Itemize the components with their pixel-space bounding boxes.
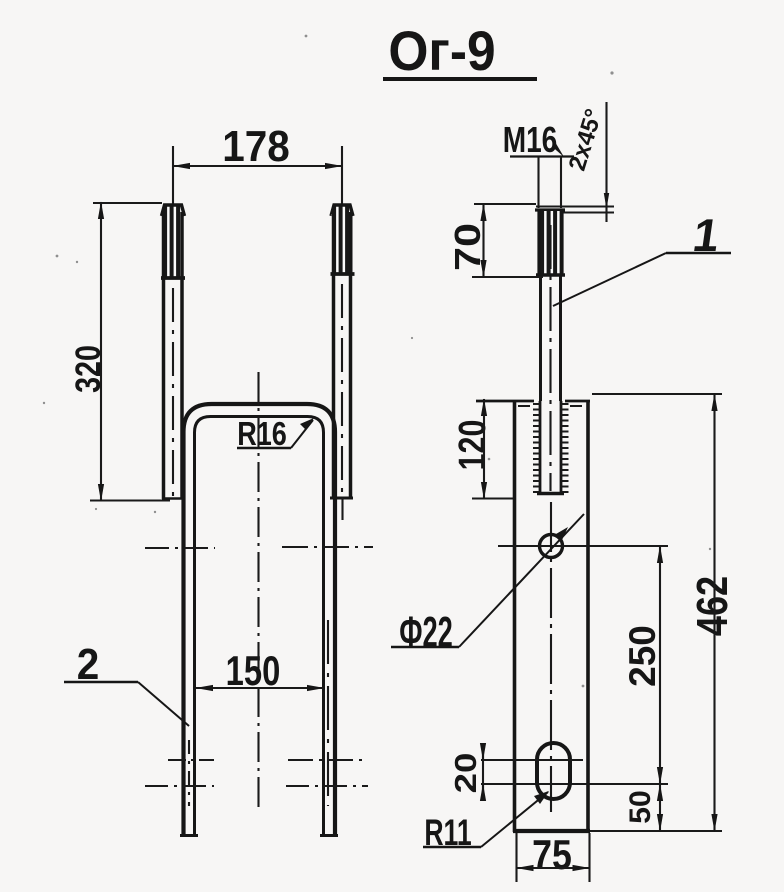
svg-text:178: 178 [222,121,290,170]
svg-text:75: 75 [532,832,572,878]
scan speckles [43,35,711,688]
dimension M16 [503,120,574,208]
plate top edge [476,400,590,403]
left leg centerline dashes [188,740,190,806]
svg-text:70: 70 [448,223,488,271]
svg-text:120: 120 [452,420,494,471]
rod item 1 top cap [535,208,565,211]
right leg centerline dashes [327,620,329,806]
axis mark left leg y760 [168,759,214,761]
dimension 178 [173,121,342,206]
axis mark right leg y548 [282,546,373,548]
stud left [161,205,185,499]
svg-text:M16: M16 [503,120,558,160]
label Ф22 with leader [391,514,584,657]
dimension 50 [481,784,668,831]
U-bolt vertical centerline [257,372,259,812]
rod item 1 thread section [536,210,565,276]
U-bolt item 2 inner outline [195,417,324,837]
title Ог-9 [383,20,537,82]
slot R11 [537,743,570,799]
axis mark right leg y786 [286,785,368,787]
plate right edge [586,400,590,832]
svg-text:Ог-9: Ог-9 [388,20,495,82]
label 2 with leader [64,639,189,726]
dimension 20 [449,744,484,799]
axis mark left leg y548 [145,547,215,549]
plate vertical centerline [550,502,552,812]
plate left edge [513,400,517,832]
stud right [330,205,355,520]
U-bolt item 2 outer outline [184,404,336,836]
dimension 70 [448,204,543,277]
hole horizontal centerline [498,545,668,547]
plate bottom edge [513,829,590,833]
svg-text:250: 250 [622,625,663,687]
svg-text:Ф22: Ф22 [399,607,453,656]
dimension 462 [590,394,737,831]
dimension 120 [452,399,513,499]
svg-text:150: 150 [226,647,281,694]
dimension 75 [517,832,590,882]
label 1 with leader [553,209,731,306]
axis mark left leg y786 [145,785,214,787]
svg-text:20: 20 [449,753,484,794]
svg-text:50: 50 [624,790,657,823]
dimension 250 [622,546,663,784]
dimension 2x45deg with leader [536,102,614,222]
embedded rod thread left line with ticks [533,401,540,492]
axis mark right leg y760 [288,759,364,761]
U-bolt left leg end cap [180,834,198,837]
svg-text:462: 462 [688,576,737,636]
dimension 320 [68,202,170,501]
U-bolt right leg end cap [320,834,338,837]
rod item 1 body [541,225,561,491]
slot upper centerline [481,759,583,761]
label R11 with leader [423,791,549,853]
plate top inner dashes [518,405,582,407]
dimension 150 [196,647,324,694]
label R16 [237,417,314,453]
embedded rod thread right line with ticks [561,401,569,492]
svg-text:2x45°: 2x45° [564,106,608,174]
hole Ф22 [540,535,563,558]
embedded rod end cap [537,492,564,495]
